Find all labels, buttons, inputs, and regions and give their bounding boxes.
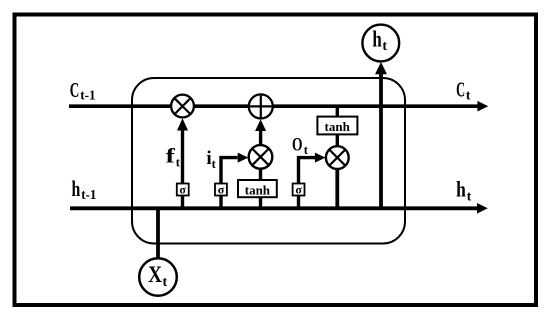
sigma box f <box>177 184 189 196</box>
svg-text:t: t <box>212 157 217 171</box>
svg-text:t: t <box>466 88 471 103</box>
wire candidate vertical (tanh bottom to h-line) <box>259 197 262 209</box>
svg-text:σ: σ <box>218 183 225 197</box>
svg-text:O: O <box>292 134 303 155</box>
svg-text:h: h <box>372 26 382 51</box>
arrowhead into output multiply <box>315 153 326 163</box>
wire input multiply to add gate <box>259 131 262 146</box>
node h_t circle <box>362 25 399 62</box>
multiply gate output <box>326 146 349 169</box>
svg-text:X: X <box>148 262 162 287</box>
wire o-gate vertical <box>299 158 316 209</box>
wire h-line (hidden state) <box>70 206 478 210</box>
multiply gate input <box>249 145 273 169</box>
svg-text:t: t <box>304 143 309 157</box>
svg-text:h: h <box>456 177 466 202</box>
sigma box i <box>215 184 227 196</box>
svg-text:C: C <box>456 78 465 102</box>
svg-text:tanh: tanh <box>245 182 271 197</box>
arrowhead h_t right <box>477 203 488 214</box>
svg-text:tanh: tanh <box>325 119 351 134</box>
wire tanh-top to output multiply <box>336 134 339 147</box>
wire C-line (cell state) <box>69 104 478 108</box>
svg-text:σ: σ <box>295 183 302 197</box>
svg-text:σ: σ <box>179 183 186 197</box>
wire f-gate vertical <box>181 130 184 209</box>
svg-text:t-1: t-1 <box>80 88 96 103</box>
arrowhead C_t <box>477 101 488 112</box>
wire tanh-bottom to input multiply <box>259 168 262 181</box>
wire X_t vertical <box>156 208 160 259</box>
arrowhead into forget multiply <box>177 118 188 130</box>
LSTM cell rounded box <box>132 78 405 244</box>
wire C-line down to tanh-top box <box>336 106 339 117</box>
sigma box o <box>293 184 305 196</box>
arrowhead into h_t circle <box>375 62 387 74</box>
arrowhead into input multiply <box>238 153 249 163</box>
svg-text:t: t <box>176 156 181 170</box>
svg-text:h: h <box>72 176 81 201</box>
wire i-gate vertical <box>221 158 238 209</box>
wire h_t up output <box>379 73 383 209</box>
svg-text:t: t <box>163 275 168 290</box>
svg-text:t: t <box>382 39 387 54</box>
wire output multiply down to h-line <box>335 169 339 208</box>
svg-text:t: t <box>467 189 472 204</box>
svg-text:C: C <box>70 78 80 102</box>
add gate <box>249 94 273 118</box>
tanh box bottom <box>238 180 277 197</box>
tanh box top <box>317 117 357 135</box>
svg-text:t-1: t-1 <box>81 187 97 202</box>
svg-text:f: f <box>166 144 177 168</box>
node X_t circle <box>139 258 177 296</box>
multiply gate forget <box>171 95 194 118</box>
arrowhead into add gate <box>255 119 266 131</box>
